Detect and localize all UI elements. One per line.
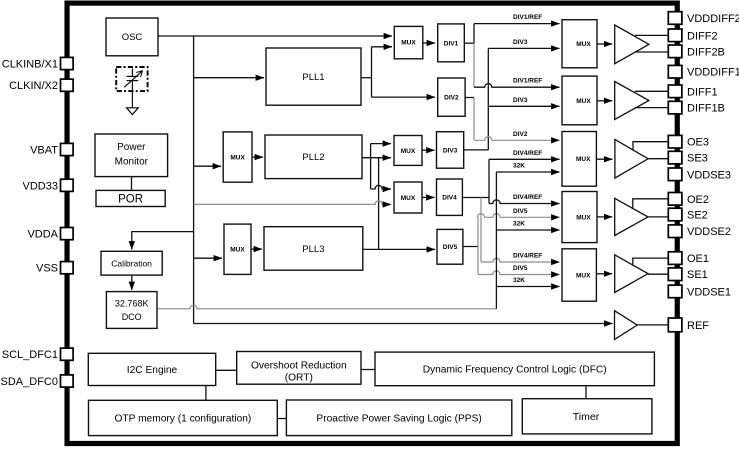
svg-text:DIV3: DIV3 (513, 97, 528, 104)
svg-text:SCL_DFC1: SCL_DFC1 (2, 349, 58, 361)
svg-text:VDDSE3: VDDSE3 (687, 169, 731, 181)
svg-text:32K: 32K (513, 221, 525, 228)
svg-text:VBAT: VBAT (30, 145, 58, 157)
svg-text:MUX: MUX (230, 155, 245, 162)
svg-text:DIV2: DIV2 (513, 131, 528, 138)
svg-text:MUX: MUX (401, 40, 416, 47)
svg-text:MUX: MUX (576, 156, 591, 163)
svg-text:VDDDIFF1: VDDDIFF1 (687, 67, 739, 79)
svg-text:DIV3: DIV3 (443, 147, 458, 154)
svg-text:DIV3: DIV3 (513, 39, 528, 46)
svg-text:Timer: Timer (573, 411, 600, 423)
svg-text:Monitor: Monitor (115, 156, 149, 167)
svg-text:OSC: OSC (122, 32, 143, 43)
svg-text:CLKINB/X1: CLKINB/X1 (2, 59, 58, 71)
svg-text:MUX: MUX (401, 148, 416, 155)
svg-text:VSS: VSS (36, 263, 58, 275)
svg-text:DIV1/REF: DIV1/REF (513, 14, 542, 21)
svg-text:DIV4/REF: DIV4/REF (513, 194, 542, 201)
svg-text:SE2: SE2 (687, 210, 708, 222)
svg-text:MUX: MUX (576, 272, 591, 279)
svg-text:OE2: OE2 (687, 194, 709, 206)
svg-text:Overshoot Reduction: Overshoot Reduction (251, 360, 347, 371)
svg-text:(ORT): (ORT) (285, 373, 313, 384)
svg-text:SE3: SE3 (687, 153, 708, 165)
svg-text:DIV4: DIV4 (442, 195, 457, 202)
svg-text:Calibration: Calibration (111, 258, 152, 268)
svg-text:VDDSE2: VDDSE2 (687, 226, 731, 238)
svg-text:SDA_DFC0: SDA_DFC0 (1, 376, 58, 388)
svg-text:DIV1: DIV1 (444, 41, 459, 48)
svg-text:OTP memory (1 configuration): OTP memory (1 configuration) (114, 414, 251, 425)
svg-text:DCO: DCO (122, 312, 142, 322)
svg-text:CLKIN/X2: CLKIN/X2 (9, 80, 58, 92)
svg-text:VDDSE1: VDDSE1 (687, 286, 731, 298)
svg-text:DIV5: DIV5 (513, 208, 528, 215)
svg-text:DIV5: DIV5 (513, 265, 528, 272)
svg-text:VDDDIFF2: VDDDIFF2 (687, 13, 739, 25)
svg-text:SE1: SE1 (687, 269, 708, 281)
svg-text:PLL3: PLL3 (302, 244, 324, 255)
svg-text:DIFF2: DIFF2 (687, 30, 718, 42)
svg-text:DIFF2B: DIFF2B (687, 46, 725, 58)
svg-text:MUX: MUX (230, 247, 245, 254)
svg-text:MUX: MUX (576, 214, 591, 221)
svg-text:PLL1: PLL1 (302, 72, 324, 83)
svg-text:Proactive Power Saving Logic (: Proactive Power Saving Logic (PPS) (316, 413, 481, 424)
svg-text:MUX: MUX (576, 41, 591, 48)
svg-text:MUX: MUX (401, 195, 416, 202)
svg-text:DIV4/REF: DIV4/REF (513, 253, 542, 260)
svg-text:I2C Engine: I2C Engine (127, 365, 178, 376)
svg-text:VDD33: VDD33 (23, 180, 58, 192)
svg-text:PLL2: PLL2 (302, 152, 324, 163)
svg-text:DIV4/REF: DIV4/REF (513, 150, 542, 157)
svg-text:POR: POR (118, 194, 143, 206)
svg-text:OE3: OE3 (687, 137, 709, 149)
svg-text:DIFF1: DIFF1 (687, 86, 718, 98)
svg-text:DIV2: DIV2 (444, 95, 459, 102)
svg-text:REF: REF (687, 320, 709, 332)
svg-text:DIFF1B: DIFF1B (687, 103, 725, 115)
svg-text:32K: 32K (513, 277, 525, 284)
svg-text:DIV5: DIV5 (443, 244, 458, 251)
svg-text:DIV1/REF: DIV1/REF (513, 78, 542, 85)
svg-text:OE1: OE1 (687, 253, 709, 265)
svg-text:32.768K: 32.768K (115, 299, 149, 309)
svg-text:32K: 32K (513, 163, 525, 170)
svg-text:Power: Power (117, 142, 146, 153)
svg-text:Dynamic Frequency Control Logi: Dynamic Frequency Control Logic (DFC) (423, 365, 607, 376)
svg-text:VDDA: VDDA (27, 229, 58, 241)
svg-text:MUX: MUX (576, 98, 591, 105)
